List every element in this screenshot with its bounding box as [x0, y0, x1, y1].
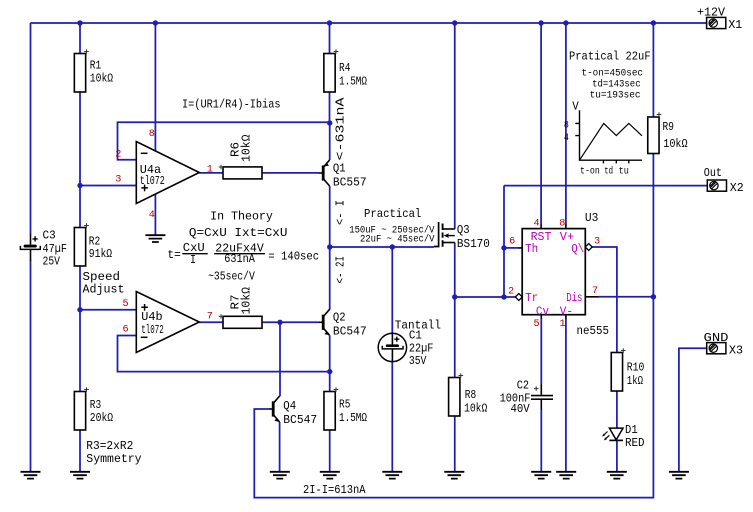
wire node B to U4b pin5 — [80, 309, 136, 311]
wire U4a out to R6 — [199, 172, 223, 174]
capacitor C2 — [531, 384, 553, 410]
svg-text:= 140sec: = 140sec — [268, 250, 319, 264]
svg-text:91kΩ: 91kΩ — [89, 247, 112, 261]
wire R6 to Q1 base — [262, 172, 319, 174]
resistor R8 — [449, 378, 460, 417]
svg-text:R8: R8 — [465, 388, 476, 402]
svg-text:+12V: +12V — [697, 5, 726, 19]
svg-text:Pratical 22uF: Pratical 22uF — [569, 50, 651, 64]
op-amp U4a — [136, 142, 199, 204]
wire R10 to D1 — [616, 391, 618, 428]
wire node E to R5 — [329, 372, 331, 392]
svg-text:Dis: Dis — [566, 291, 582, 305]
junction node G — [390, 244, 395, 249]
wire C2 to ground — [540, 409, 542, 472]
svg-text:1: 1 — [560, 319, 566, 330]
junction rail/RST — [538, 20, 543, 25]
svg-text:631nA: 631nA — [224, 252, 255, 266]
wire U4b out to R7 — [199, 321, 223, 323]
transistor Q1 PNP — [319, 160, 330, 186]
svg-text:R5: R5 — [339, 398, 350, 412]
svg-text:20kΩ: 20kΩ — [90, 411, 113, 425]
svg-text:V-: V- — [560, 305, 573, 319]
svg-text:<- 2I: <- 2I — [334, 256, 348, 284]
ic U3 pin2 diamond — [515, 294, 522, 301]
junction node E — [327, 369, 332, 374]
svg-text:U4b: U4b — [141, 310, 162, 324]
svg-text:td=143sec: td=143sec — [592, 78, 641, 90]
svg-text:BC557: BC557 — [333, 175, 367, 189]
wire node F to Q1 emitter — [329, 123, 331, 160]
svg-text:I: I — [190, 253, 196, 267]
svg-text:2I-I=613nA: 2I-I=613nA — [303, 483, 366, 497]
resistor R2 — [74, 228, 85, 267]
resistor R4 — [324, 54, 335, 93]
ground C2 — [531, 472, 551, 479]
svg-text:RED: RED — [625, 436, 645, 450]
svg-text:tl072: tl072 — [141, 323, 164, 337]
wire 555 pin3 out to R10 — [592, 247, 617, 353]
wire rail to R9 — [652, 23, 654, 117]
ground 555 V- — [556, 472, 576, 479]
junction node F — [327, 120, 332, 125]
svg-text:V: V — [572, 100, 579, 114]
junction rail/R4 — [327, 20, 332, 25]
svg-text:10kΩ: 10kΩ — [464, 401, 487, 415]
ground X3 — [669, 472, 689, 479]
wire R4 to node F — [329, 92, 331, 123]
svg-text:3: 3 — [594, 237, 600, 248]
svg-text:2: 2 — [115, 150, 121, 161]
ground Q4 — [270, 472, 290, 479]
ground U4a pin4 — [145, 235, 165, 242]
svg-text:X2: X2 — [730, 181, 744, 195]
wire R7 to node D to Q2 base — [262, 321, 319, 323]
wire node H to 555 Tr — [455, 296, 516, 298]
ground C3 — [21, 472, 41, 479]
svg-text:Q4: Q4 — [283, 399, 296, 413]
svg-text:tu=193sec: tu=193sec — [590, 90, 641, 101]
svg-text:Cv: Cv — [536, 305, 549, 319]
wire R3 to ground — [79, 430, 81, 472]
svg-text:R9: R9 — [663, 120, 674, 134]
svg-text:X1: X1 — [728, 18, 742, 32]
wire R2 to node B — [79, 266, 81, 310]
svg-text:Q2: Q2 — [333, 310, 346, 324]
svg-text:6: 6 — [509, 237, 515, 248]
svg-text:8: 8 — [564, 120, 569, 131]
svg-text:Q1: Q1 — [333, 161, 346, 175]
wire rail to 555 RST pin4 — [540, 23, 542, 225]
connector X1 — [707, 17, 726, 28]
wire Q4 base loop — [254, 297, 653, 498]
junction node J — [651, 294, 656, 299]
wire node B to R3 — [79, 310, 81, 392]
junction rail/V+ — [563, 20, 568, 25]
svg-text:U3: U3 — [585, 211, 599, 225]
svg-text:BC547: BC547 — [283, 413, 317, 427]
svg-text:~35sec/V: ~35sec/V — [208, 270, 255, 284]
svg-text:8: 8 — [559, 219, 565, 230]
op-amp U4b — [136, 292, 199, 353]
svg-text:In Theory: In Theory — [210, 210, 273, 224]
svg-text:Adjust: Adjust — [83, 282, 125, 296]
svg-text:Tr: Tr — [525, 291, 538, 305]
svg-text:<- I: <- I — [334, 200, 348, 225]
svg-text:1.5MΩ: 1.5MΩ — [339, 411, 367, 425]
wire C3 to ground — [30, 260, 32, 472]
wire node H to R8 — [454, 297, 456, 378]
svg-text:7: 7 — [592, 286, 598, 297]
wire C1 to ground — [391, 361, 393, 472]
ground R5 — [320, 472, 340, 479]
wire left rail down to C3 — [30, 23, 32, 234]
svg-text:R10: R10 — [627, 360, 645, 374]
wire U4a pin4 to ground — [154, 194, 156, 235]
wire U4b feedback pin6 — [118, 336, 330, 372]
svg-text:35V: 35V — [409, 354, 427, 368]
svg-text:25V: 25V — [43, 254, 61, 268]
svg-text:22uF ~ 45sec/V: 22uF ~ 45sec/V — [360, 234, 435, 246]
svg-text:1kΩ: 1kΩ — [627, 374, 643, 388]
svg-text:t-on: t-on — [580, 166, 600, 177]
svg-text:4: 4 — [564, 133, 569, 144]
ground C1 — [382, 472, 402, 479]
wire 555 Dis pin7 to node J — [598, 296, 653, 298]
svg-text:BC547: BC547 — [333, 325, 367, 339]
wire R8 to ground — [454, 416, 456, 472]
ground R3 — [70, 472, 90, 479]
wire Q3 source to node H — [454, 243, 456, 298]
svg-text:X3: X3 — [729, 344, 743, 358]
svg-text:R3: R3 — [90, 398, 101, 412]
svg-text:8: 8 — [149, 129, 155, 140]
wire rail to U4a pin8 — [154, 23, 156, 151]
junction node B — [77, 307, 82, 312]
svg-text:10kΩ: 10kΩ — [663, 137, 688, 151]
wire out node down to Tr — [503, 186, 505, 297]
junction rail/R1 — [77, 20, 82, 25]
wire Th node to 555 pin6 — [504, 247, 519, 249]
ic U3 pin3 diamond — [585, 244, 592, 251]
wire rail to 555 V+ pin8 — [565, 23, 567, 225]
transistor Q4 NPN — [269, 396, 280, 422]
graph axes — [575, 110, 642, 163]
resistor R1 — [74, 54, 85, 93]
transistor Q2 NPN — [319, 309, 330, 335]
wire rail to Q3 drain — [454, 23, 456, 229]
wire X3 GND — [679, 348, 707, 472]
svg-text:R3=2xR2: R3=2xR2 — [86, 439, 133, 453]
svg-text:BS170: BS170 — [457, 237, 490, 251]
svg-text:1: 1 — [207, 165, 213, 176]
wire Q2 emitter to node E — [329, 335, 331, 371]
wire D1 to ground — [616, 440, 618, 471]
svg-text:Q\: Q\ — [571, 242, 584, 256]
svg-text:Th: Th — [525, 242, 538, 256]
junction node Th — [501, 245, 506, 250]
diode D1 LED — [602, 428, 623, 440]
svg-text:I=(UR1/R4)-Ibias: I=(UR1/R4)-Ibias — [182, 98, 281, 112]
wire Q1 collector to node C — [329, 186, 331, 247]
svg-text:Q=CxU Ixt=CxU: Q=CxU Ixt=CxU — [189, 226, 288, 240]
svg-text:5: 5 — [534, 319, 540, 330]
junction node A — [77, 183, 82, 188]
svg-text:Practical: Practical — [364, 207, 421, 221]
svg-text:1.5MΩ: 1.5MΩ — [339, 75, 367, 89]
wire node G to C1 — [391, 247, 393, 334]
wire node A to U4a pin3 — [80, 185, 136, 187]
svg-text:GND: GND — [704, 331, 729, 345]
wire R5 to ground — [329, 430, 331, 472]
svg-text:Symmetry: Symmetry — [86, 452, 141, 466]
wire R9 to node J — [652, 154, 654, 297]
capacitor C1 tantalum — [378, 333, 406, 361]
ground R8 — [444, 472, 464, 479]
transistor Q3 MOSFET — [434, 222, 455, 247]
svg-text:tu: tu — [619, 166, 629, 177]
wire node A to R2 — [79, 186, 81, 228]
svg-text:Out: Out — [704, 166, 722, 180]
wire 555 V- pin1 to ground — [565, 318, 567, 472]
capacitor C3 polarized — [20, 234, 40, 261]
wire Out to X2 — [504, 185, 707, 187]
svg-text:t-on=450sec: t-on=450sec — [582, 68, 644, 79]
resistor R6 — [223, 167, 262, 179]
junction node C — [327, 244, 332, 249]
svg-text:3: 3 — [115, 175, 121, 186]
svg-text:Q3: Q3 — [457, 223, 470, 237]
svg-text:ne555: ne555 — [577, 324, 610, 338]
svg-text:6: 6 — [123, 325, 129, 336]
ground D1 — [607, 472, 627, 479]
svg-text:tl072: tl072 — [140, 174, 165, 188]
junction node D — [277, 320, 282, 325]
svg-text:C3: C3 — [43, 229, 56, 243]
wire U4a feedback pin2 — [118, 122, 330, 159]
svg-text:4: 4 — [149, 210, 155, 221]
wire rail to R4 — [329, 23, 331, 54]
svg-text:<-631nA: <-631nA — [334, 97, 348, 161]
svg-text:7: 7 — [207, 312, 213, 323]
svg-text:C1: C1 — [409, 329, 422, 343]
ic U3 ne555 body — [522, 229, 585, 315]
graph waveform — [580, 123, 643, 160]
wire R1 to node A — [79, 92, 81, 186]
svg-text:40V: 40V — [511, 402, 531, 416]
svg-text:D1: D1 — [625, 423, 638, 437]
resistor R7 — [223, 316, 262, 328]
svg-text:10kΩ: 10kΩ — [240, 287, 254, 315]
wire +12V top rail — [31, 22, 707, 24]
wire rail to R1 — [79, 23, 81, 54]
junction rail/R9 — [651, 20, 656, 25]
svg-text:10kΩ: 10kΩ — [240, 135, 254, 163]
svg-text:R4: R4 — [339, 61, 350, 75]
resistor R9 — [648, 117, 659, 154]
connector X3 — [707, 343, 726, 354]
junction node Tr — [501, 294, 506, 299]
resistor R10 — [611, 353, 622, 392]
junction rail/U4a-pin8 — [153, 20, 158, 25]
svg-text:2: 2 — [508, 287, 514, 298]
resistor R5 — [324, 392, 335, 431]
svg-text:10kΩ: 10kΩ — [90, 72, 113, 86]
connector X2 — [707, 180, 726, 191]
svg-text:5: 5 — [123, 299, 129, 310]
resistor R3 — [74, 392, 85, 431]
junction rail/Q3 — [452, 20, 457, 25]
ic U3 pin stubs — [518, 225, 598, 319]
wire Q4 emitter to ground — [279, 422, 281, 472]
svg-text:C2: C2 — [517, 379, 529, 393]
wire node D down to Q4 collector — [279, 322, 281, 396]
junction node H — [452, 294, 457, 299]
svg-text:t=: t= — [167, 248, 180, 262]
wire node C to Q3 gate — [330, 246, 434, 248]
svg-text:td: td — [604, 165, 613, 177]
svg-text:4: 4 — [534, 219, 540, 230]
wire 555 Cv pin5 to C2 — [540, 318, 542, 384]
wire node C to Q2 collector — [329, 247, 331, 310]
